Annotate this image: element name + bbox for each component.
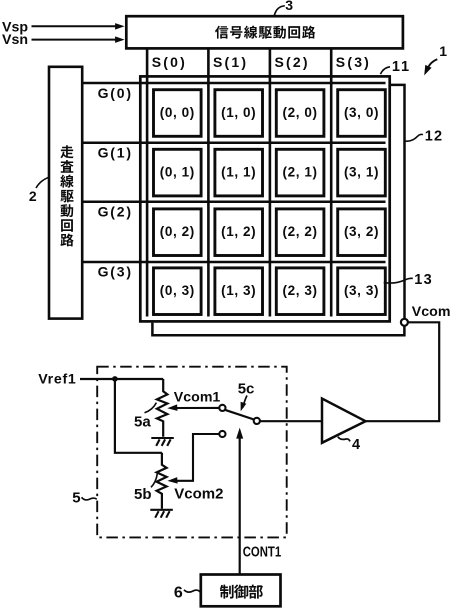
svg-text:5: 5 (72, 490, 80, 507)
svg-text:(1, 3): (1, 3) (221, 283, 256, 298)
svg-text:5b: 5b (134, 486, 152, 503)
pixel electrode cell (2,1) (276, 149, 324, 196)
pixel electrode cell (0,0) (154, 90, 202, 137)
svg-text:(2, 3): (2, 3) (283, 283, 318, 298)
node Vcom terminal circle (401, 319, 408, 326)
wire Vsp arrow into driver (32, 23, 125, 30)
wiper arrow of 5b wire to Vcom2 contact (167, 434, 219, 484)
svg-text:5c: 5c (238, 380, 255, 397)
label Vcom (412, 304, 451, 320)
junction node dot (112, 376, 118, 382)
label G(1) (98, 145, 133, 161)
label 5 with tilde leader (72, 490, 97, 507)
common electrode sheet bottom edge (152, 323, 404, 336)
svg-text:(3, 1): (3, 1) (344, 165, 379, 180)
label Vcom2 (174, 486, 223, 503)
label 11 with leader (381, 59, 411, 75)
gate lines G(0)-G(3) horizontal wires (82, 83, 386, 262)
pixel electrode cell (1,0) (215, 90, 263, 137)
pixel electrode cell (3,2) (338, 209, 386, 256)
svg-text:G(3): G(3) (98, 264, 133, 280)
svg-text:(3, 3): (3, 3) (344, 283, 379, 298)
label CONT1 (243, 543, 282, 560)
svg-text:CONT1: CONT1 (243, 543, 282, 560)
label G(3) (98, 264, 133, 280)
svg-text:Vref1: Vref1 (38, 372, 76, 388)
counter electrode plate 12 edge (389, 85, 405, 319)
label G(0) (98, 85, 133, 101)
label S(3) (336, 54, 371, 70)
wire left branch to 5b (115, 379, 162, 453)
svg-text:Vcom: Vcom (412, 304, 451, 320)
svg-text:(2, 2): (2, 2) (283, 224, 318, 239)
switch contact Vcom1 circle (219, 405, 225, 411)
svg-text:S(2): S(2) (275, 54, 310, 70)
pixel electrode cell (3,3) (338, 268, 386, 315)
svg-text:S(1): S(1) (213, 54, 248, 70)
op-amp buffer 4 triangle (322, 399, 366, 443)
svg-text:3: 3 (285, 0, 293, 13)
svg-text:S(3): S(3) (336, 54, 371, 70)
pixel electrode cell (3,1) (338, 149, 386, 196)
label 6 with tilde leader (174, 584, 200, 601)
svg-text:G(2): G(2) (98, 204, 133, 220)
switch contact Vcom2 circle (219, 431, 225, 437)
label 1 with arrow (424, 43, 447, 75)
switch common circle (254, 418, 260, 424)
svg-text:5a: 5a (134, 414, 151, 431)
pixel electrode cell (2,3) (276, 268, 324, 315)
label 4 with leader (338, 437, 360, 453)
svg-text:(1, 2): (1, 2) (221, 224, 256, 239)
svg-text:G(1): G(1) (98, 145, 133, 161)
svg-text:6: 6 (174, 584, 183, 601)
block: signal line driver circuit U3 信号線駆動回路 (126, 16, 403, 48)
label S(0) (152, 54, 187, 70)
block: control unit U6 制御部 (201, 575, 281, 607)
ground under 5b (150, 510, 173, 518)
label 12 with leader (405, 128, 444, 144)
svg-text:1: 1 (439, 43, 447, 59)
label G(2) (98, 204, 133, 220)
label 5b with leader (134, 474, 157, 503)
label Vref1 (38, 372, 76, 388)
label 13 with leader (384, 272, 433, 288)
svg-text:11: 11 (392, 59, 411, 75)
label S(1) (213, 54, 248, 70)
block: scanning line driver circuit U2 走査線駆動回路 (49, 67, 82, 319)
svg-text:12: 12 (425, 128, 444, 144)
ground under 5a (151, 438, 174, 446)
switch blade 5c (225, 410, 254, 420)
pixel electrode cell (2,0) (276, 90, 324, 137)
wiper arrow of 5a (167, 404, 219, 411)
svg-text:13: 13 (414, 272, 433, 288)
wire Vref1 into box (80, 378, 163, 380)
svg-text:Vcom2: Vcom2 (174, 486, 223, 503)
label 5a with leader (134, 403, 156, 431)
label Vcom1 (174, 390, 221, 406)
svg-text:G(0): G(0) (98, 85, 133, 101)
svg-text:Vcom1: Vcom1 (174, 390, 221, 406)
pixel electrode cell (3,0) (338, 90, 386, 137)
svg-text:(3, 2): (3, 2) (344, 224, 379, 239)
pixel electrode cell (0,3) (154, 268, 202, 315)
svg-text:(2, 1): (2, 1) (283, 165, 318, 180)
svg-text:(0, 1): (0, 1) (160, 165, 195, 180)
pixel electrode cell (0,2) (154, 209, 202, 256)
pixel electrode cell (1,2) (215, 209, 263, 256)
svg-text:2: 2 (29, 188, 37, 204)
potentiometer 5b resistor (157, 453, 167, 509)
pixel electrode cell (1,1) (215, 149, 263, 196)
svg-text:(2, 0): (2, 0) (283, 105, 318, 120)
wire CONT1 control line with arrow (236, 428, 243, 575)
label 3 with leader (274, 0, 293, 15)
label 2 with leader (29, 177, 49, 204)
svg-text:(0, 2): (0, 2) (160, 224, 195, 239)
svg-text:(3, 0): (3, 0) (344, 105, 379, 120)
label S(2) (275, 54, 310, 70)
svg-text:Vsn: Vsn (2, 32, 28, 48)
pixel electrode cell (2,2) (276, 209, 324, 256)
wire from Vcom node to amplifier output (366, 322, 440, 421)
svg-text:(1, 1): (1, 1) (221, 165, 256, 180)
svg-text:(0, 0): (0, 0) (160, 105, 195, 120)
signal lines S(0)-S(3) vertical wires (147, 48, 331, 317)
display panel outline 11 (140, 76, 389, 321)
pixel electrode cell (1,3) (215, 268, 263, 315)
label 5c with arrow (238, 380, 255, 411)
svg-text:(0, 3): (0, 3) (160, 283, 195, 298)
svg-text:S(0): S(0) (152, 54, 187, 70)
Vcom generator block 5 dash-dot box (97, 367, 287, 538)
wire Vsn arrow into driver (32, 36, 125, 43)
input Vsp label (2, 19, 28, 35)
input Vsn label (2, 32, 28, 48)
wire switch common to amplifier input (260, 420, 321, 422)
pixel electrode cell (0,1) (154, 149, 202, 196)
svg-text:4: 4 (352, 437, 360, 453)
potentiometer 5a resistor (157, 379, 168, 437)
svg-text:(1, 0): (1, 0) (221, 105, 256, 120)
